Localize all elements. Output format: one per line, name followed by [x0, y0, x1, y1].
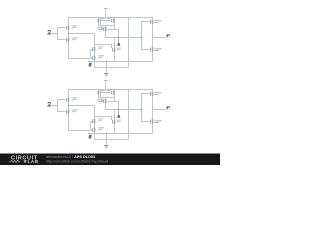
label M2 (bottom): [72, 109, 78, 112]
wire right inner vertical (top): [128, 17, 130, 67]
junction mid (bottom): [68, 105, 69, 106]
input net flag (bottom): [48, 102, 51, 106]
input net flag (top): [48, 30, 51, 34]
net flag rail (bottom): [89, 134, 92, 139]
transistor M6 (top): [151, 20, 154, 24]
wire stage2 to comp node (top): [106, 29, 119, 37]
transistor M1 (bottom): [67, 98, 70, 102]
wire M8 gate link (top): [90, 49, 92, 59]
transistor M2 (top): [67, 38, 70, 42]
wire tail gate line (bottom): [68, 130, 92, 132]
label M9 (top): [117, 48, 121, 51]
transistor M8 (top): [93, 46, 96, 61]
label M8 (bottom): [98, 118, 103, 121]
wire right inner vertical (bottom): [128, 89, 130, 139]
wire output gate bias (top): [141, 21, 150, 50]
output port flag (bottom): [166, 106, 170, 109]
label M7 (top): [154, 48, 161, 51]
wire left column (bottom): [68, 89, 70, 131]
wire mid node (top): [68, 34, 95, 47]
label M6 (top): [154, 20, 161, 23]
transistor M10 (top): [93, 56, 96, 60]
wire gate bracket (bottom): [57, 100, 67, 112]
junction output (bottom): [152, 109, 154, 111]
wire mid node (bottom): [68, 106, 95, 119]
transistor M5 (top): [104, 25, 107, 37]
label M4 (top): [107, 18, 111, 21]
wire left column (top): [68, 17, 70, 59]
wire top rail (top): [68, 17, 152, 19]
wire mirror diode loop (bottom): [98, 93, 114, 98]
junction comp (bottom): [118, 109, 119, 110]
wire stage2 to comp node (bottom): [106, 101, 119, 109]
label M5 (top): [97, 27, 104, 30]
transistor M4 (bottom): [112, 89, 115, 101]
label M3 (top): [101, 18, 105, 21]
wire input stub (top): [51, 33, 58, 35]
transistor M9 (top): [113, 37, 116, 61]
label M7 (bottom): [154, 120, 161, 123]
svg-text:http://circuitlab.com/c/5wh9/7: http://circuitlab.com/c/5wh9/7ap39aw8: [46, 159, 108, 163]
junction mid (top): [68, 33, 69, 34]
wire output gate bias (bottom): [141, 93, 150, 122]
wire bottom rail (top): [88, 61, 152, 63]
junction gate bias (top): [141, 37, 143, 39]
transistor M6 (bottom): [151, 92, 154, 96]
wire M5 gate link (bottom): [101, 97, 103, 101]
wire source loop (top): [94, 61, 128, 68]
net flag comp node (bottom): [117, 110, 120, 119]
wire bottom rail (bottom): [88, 133, 152, 135]
ground symbol (bottom): [104, 146, 109, 149]
wire right column (bottom): [152, 89, 154, 133]
svg-text:LAB: LAB: [28, 159, 39, 165]
transistor M10 (bottom): [93, 128, 96, 132]
net flag rail (top): [89, 62, 92, 67]
label M1 (bottom): [72, 97, 77, 100]
transistor M3 (top): [98, 17, 101, 25]
label M1 (top): [72, 25, 77, 28]
transistor M4 (top): [112, 17, 115, 29]
ground symbol (top): [104, 74, 109, 77]
transistor M3 (bottom): [98, 89, 101, 97]
wire M8 gate link (bottom): [90, 121, 92, 131]
CircuitLab logo: [9, 156, 39, 166]
transistor M8 (bottom): [93, 118, 96, 133]
wire right column (top): [152, 17, 154, 61]
footer bar: [0, 154, 220, 166]
wire stage2 output (top): [105, 37, 141, 39]
wire bottom mirror tie (bottom): [94, 116, 112, 120]
label M10 (top): [98, 55, 103, 58]
supply V+ symbol (top): [104, 8, 107, 17]
junction ground (bottom): [106, 133, 107, 134]
footer text line 1: [46, 155, 95, 159]
junction gate bias (bottom): [141, 109, 143, 111]
wire gate bracket (top): [57, 28, 67, 40]
label M9 (bottom): [117, 120, 121, 123]
label M6 (bottom): [154, 92, 161, 95]
wire input stub (bottom): [51, 105, 58, 107]
supply V+ symbol (bottom): [104, 80, 107, 89]
junction ground (top): [106, 61, 107, 62]
wire ground stub (top): [106, 61, 108, 73]
label M2 (top): [72, 37, 78, 40]
label M3 (bottom): [101, 90, 105, 93]
label M8 (top): [98, 46, 103, 49]
net flag comp node (top): [117, 38, 120, 47]
footer text line 2: [46, 159, 108, 163]
wire mirror diode loop (top): [98, 21, 114, 26]
transistor M9 (bottom): [113, 109, 116, 133]
transistor M7 (top): [151, 47, 154, 51]
transistor M7 (bottom): [151, 119, 154, 123]
wire stage2 output (bottom): [105, 109, 141, 111]
wire mirror gate tie (bottom): [101, 92, 112, 94]
junction output (top): [152, 37, 154, 39]
wire tail gate line (top): [68, 58, 92, 60]
transistor M1 (top): [67, 26, 70, 30]
wire top rail (bottom): [68, 89, 152, 91]
output port flag (top): [166, 34, 170, 37]
wire output (bottom): [152, 109, 166, 111]
label M10 (bottom): [98, 127, 103, 130]
label M5 (bottom): [97, 99, 104, 102]
wire mirror gate tie (top): [101, 20, 112, 22]
wire output (top): [152, 37, 166, 39]
transistor M2 (bottom): [67, 110, 70, 114]
junction comp (top): [118, 37, 119, 38]
wire bottom mirror tie (top): [94, 44, 112, 48]
wire M5 gate link (top): [101, 25, 103, 29]
transistor M5 (bottom): [104, 97, 107, 109]
label M4 (bottom): [107, 90, 111, 93]
wire ground stub (bottom): [106, 133, 108, 145]
wire source loop (bottom): [94, 133, 128, 140]
